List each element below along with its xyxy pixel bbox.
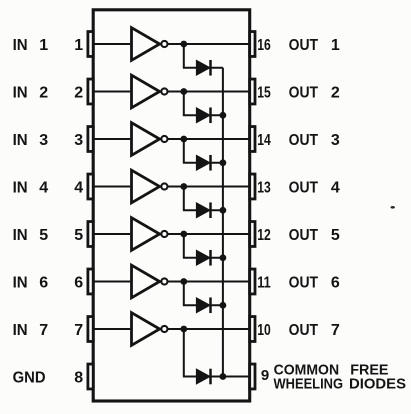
- pin 15 lead: [250, 79, 255, 104]
- wire input pin 2 to inverter A2: [93, 91, 130, 93]
- wire input pin 1 to inverter A1: [93, 43, 130, 45]
- svg-text:4: 4: [39, 179, 48, 196]
- wire node out1 down to diode D1: [183, 44, 185, 68]
- svg-text:OUT: OUT: [289, 132, 319, 149]
- svg-text:2: 2: [74, 84, 83, 101]
- wire diode D2 cathode to common bus: [211, 114, 223, 116]
- svg-text:9: 9: [261, 367, 269, 384]
- wire diode D7 cathode to common bus: [211, 376, 223, 378]
- diode D7: [196, 369, 210, 385]
- pin 4 lead: [88, 174, 93, 199]
- wire inverter A7 output to pin 10: [167, 328, 249, 330]
- svg-text:5: 5: [331, 227, 340, 244]
- svg-text:OUT: OUT: [289, 227, 319, 244]
- svg-text:WHEELING: WHEELING: [274, 376, 344, 393]
- svg-text:IN: IN: [13, 84, 28, 101]
- wire to diode D3 anode: [183, 162, 197, 164]
- wire node out5 down to diode D5: [183, 234, 185, 258]
- inverter A4: [132, 170, 168, 203]
- svg-text:OUT: OUT: [289, 84, 319, 101]
- diode D6: [196, 297, 210, 313]
- svg-text:5: 5: [39, 227, 48, 244]
- svg-text:IN: IN: [13, 227, 28, 244]
- pin 10 lead: [250, 317, 255, 342]
- pin 16 lead: [250, 32, 255, 57]
- wire input pin 5 to inverter A5: [93, 233, 130, 235]
- label COMMON FREE WHEELING DIODES: [274, 361, 407, 392]
- node bus junction dot D5: [220, 254, 227, 261]
- svg-text:3: 3: [331, 132, 340, 149]
- inverter A1: [132, 28, 168, 61]
- wire to diode D7 anode: [183, 376, 197, 378]
- wire diode D4 cathode to common bus: [211, 209, 223, 211]
- svg-text:12: 12: [257, 227, 271, 244]
- svg-text:OUT: OUT: [289, 179, 319, 196]
- svg-text:4: 4: [331, 179, 340, 196]
- wire input pin 3 to inverter A3: [93, 138, 130, 140]
- svg-text:GND: GND: [13, 369, 46, 386]
- svg-text:4: 4: [74, 179, 83, 196]
- node out5 junction dot: [180, 231, 187, 238]
- wire to diode D6 anode: [183, 304, 197, 306]
- svg-text:IN: IN: [13, 179, 28, 196]
- svg-text:OUT: OUT: [289, 322, 319, 339]
- node out2 junction dot: [180, 88, 187, 95]
- diode D4: [196, 202, 210, 218]
- pin 12 lead: [250, 222, 255, 247]
- svg-text:13: 13: [257, 179, 271, 196]
- wire diode D3 cathode to common bus: [211, 162, 223, 164]
- svg-text:5: 5: [74, 227, 83, 244]
- node out3 junction dot: [180, 136, 187, 143]
- svg-text:6: 6: [39, 274, 48, 291]
- node bus junction dot D3: [220, 159, 227, 166]
- IC body outline: [93, 10, 250, 401]
- diode D5: [196, 250, 210, 266]
- svg-text:IN: IN: [13, 322, 28, 339]
- wire to diode D5 anode: [183, 257, 197, 259]
- wire to diode D4 anode: [183, 209, 197, 211]
- wire inverter A4 output to pin 13: [167, 186, 249, 188]
- svg-text:1: 1: [331, 37, 340, 54]
- node bus junction dot D4: [220, 207, 227, 214]
- diode D1: [196, 60, 210, 76]
- pin 9 lead: [250, 364, 255, 389]
- svg-text:OUT: OUT: [289, 274, 319, 291]
- node out4 junction dot: [180, 183, 187, 190]
- node out6 junction dot: [180, 278, 187, 285]
- svg-text:3: 3: [74, 132, 83, 149]
- node bus junction dot D6: [220, 302, 227, 309]
- pin 1 lead: [88, 32, 93, 57]
- pin 14 lead: [250, 127, 255, 152]
- svg-text:7: 7: [331, 322, 340, 339]
- pin 3 lead: [88, 127, 93, 152]
- wire inverter A3 output to pin 14: [167, 138, 249, 140]
- wire to diode D1 anode: [183, 67, 197, 69]
- wire common cathode bus vertical: [222, 68, 224, 377]
- wire inverter A1 output to pin 16: [167, 43, 249, 45]
- wire input pin 4 to inverter A4: [93, 186, 130, 188]
- svg-text:1: 1: [74, 37, 83, 54]
- wire input pin 7 to inverter A7: [93, 328, 130, 330]
- wire node out2 down to diode D2: [183, 92, 185, 116]
- wire diode D5 cathode to common bus: [211, 257, 223, 259]
- pin 2 lead: [88, 79, 93, 104]
- inverter A3: [132, 123, 168, 156]
- inverter A7: [132, 313, 168, 346]
- svg-text:IN: IN: [13, 37, 28, 54]
- diode D3: [196, 155, 210, 171]
- wire input pin 6 to inverter A6: [93, 281, 130, 283]
- pin 6 lead: [88, 269, 93, 294]
- svg-text:6: 6: [74, 274, 83, 291]
- svg-text:11: 11: [257, 274, 271, 291]
- svg-text:DIODES: DIODES: [349, 376, 406, 393]
- scan speck artifact: [391, 206, 395, 209]
- wire node out6 down to diode D6: [183, 282, 185, 306]
- svg-text:7: 7: [39, 322, 48, 339]
- wire inverter A2 output to pin 15: [167, 91, 249, 93]
- wire diode D6 cathode to common bus: [211, 304, 223, 306]
- wire to diode D2 anode: [183, 114, 197, 116]
- svg-text:1: 1: [39, 37, 48, 54]
- svg-text:15: 15: [257, 84, 271, 101]
- svg-text:2: 2: [39, 84, 48, 101]
- svg-text:3: 3: [39, 132, 48, 149]
- svg-text:OUT: OUT: [289, 37, 319, 54]
- svg-text:6: 6: [331, 274, 340, 291]
- pin 11 lead: [250, 269, 255, 294]
- inverter A6: [132, 265, 168, 298]
- diode D2: [196, 107, 210, 123]
- wire common bus to pin 9: [223, 376, 250, 378]
- wire node out7 down to diode D7: [183, 329, 185, 377]
- wire node out4 down to diode D4: [183, 187, 185, 211]
- inverter A2: [132, 75, 168, 108]
- pin 13 lead: [250, 174, 255, 199]
- pin 5 lead: [88, 222, 93, 247]
- svg-text:7: 7: [74, 322, 83, 339]
- wire inverter A5 output to pin 12: [167, 233, 249, 235]
- node bus junction dot D2: [220, 112, 227, 119]
- wire diode D1 cathode to common bus: [211, 67, 223, 69]
- pin 8 lead: [88, 364, 93, 389]
- svg-text:2: 2: [331, 84, 340, 101]
- wire node out3 down to diode D3: [183, 139, 185, 163]
- node out1 junction dot: [180, 41, 187, 48]
- svg-text:8: 8: [74, 369, 83, 386]
- svg-text:IN: IN: [13, 274, 28, 291]
- svg-text:14: 14: [257, 132, 271, 149]
- node bus junction dot D7: [220, 373, 227, 380]
- svg-text:16: 16: [257, 37, 271, 54]
- node out7 junction dot: [180, 326, 187, 333]
- inverter A5: [132, 218, 168, 251]
- wire inverter A6 output to pin 11: [167, 281, 249, 283]
- svg-text:IN: IN: [13, 132, 28, 149]
- svg-text:10: 10: [257, 322, 271, 339]
- pin 7 lead: [88, 317, 93, 342]
